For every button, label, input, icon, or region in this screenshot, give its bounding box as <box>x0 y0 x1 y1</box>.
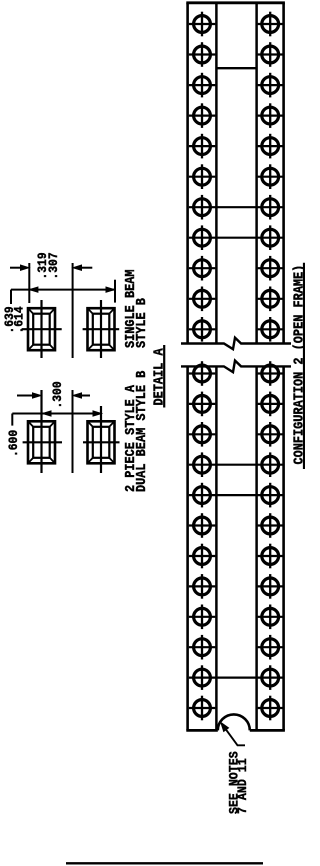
socket contact row 19 left <box>189 574 216 599</box>
socket contact row 20 right <box>258 605 283 630</box>
dimension .639/.614 line <box>11 289 115 291</box>
socket contact row 20 left <box>189 605 216 630</box>
dim .300 right arrowhead <box>73 393 82 398</box>
title DETAIL A <box>151 348 167 405</box>
dim .319 right arrowhead <box>73 265 82 270</box>
extension line mid gap G2 <box>72 390 74 473</box>
socket contact row 9 left <box>189 256 216 281</box>
contact row 15 full-width cross line <box>189 464 283 466</box>
label SINGLE BEAM <box>122 269 138 348</box>
DETAIL A underline <box>163 345 165 408</box>
dimension .300 line right part <box>80 395 90 397</box>
dimension .319/.307 line left part <box>10 267 22 269</box>
socket contact row 21 right <box>258 635 283 660</box>
socket contact row 11 right <box>258 317 283 342</box>
socket contact row 12 right <box>258 361 283 386</box>
label 2 PIECE STYLE A <box>122 385 138 492</box>
inner rail line right (upper) <box>255 3 258 344</box>
cross rib near top of socket <box>216 67 256 69</box>
title CONFIGURATION 2 (OPEN FRAME) <box>291 265 307 465</box>
socket contact row 10 left <box>189 287 216 312</box>
socket contact row 11 left <box>189 317 216 342</box>
polarity notch arc <box>218 714 250 730</box>
dim .639 left arrowhead <box>29 287 38 292</box>
socket contact row 8 left <box>194 225 211 250</box>
socket contact row 3 left <box>189 73 216 98</box>
socket contact row 3 right <box>258 73 283 98</box>
svg-text:DUAL BEAM STYLE B: DUAL BEAM STYLE B <box>133 370 149 492</box>
svg-text:.300: .300 <box>50 381 65 408</box>
socket bottom edge left of polarity notch <box>186 729 218 732</box>
socket outer right edge (upper) <box>282 3 285 344</box>
socket contact row 7 left <box>194 195 211 220</box>
dim .300 left arrowhead <box>33 393 42 398</box>
label STYLE B <box>133 298 149 348</box>
break line lower <box>181 361 291 373</box>
socket outer left edge (lower) <box>186 366 189 730</box>
socket contact row 23 left <box>189 696 216 721</box>
socket contact row 6 right <box>258 164 283 189</box>
socket contact row 18 left <box>189 544 216 569</box>
svg-text:STYLE B: STYLE B <box>133 298 149 348</box>
dim .600 right arrowhead <box>93 411 102 416</box>
socket contact row 14 left <box>189 422 216 447</box>
svg-text:CONFIGURATION 2 (OPEN FRAME): CONFIGURATION 2 (OPEN FRAME) <box>291 265 305 465</box>
socket contact row 16 left <box>194 483 211 508</box>
socket contact row 22 right <box>262 665 279 690</box>
detail contact G1 right (single beam) <box>83 300 120 358</box>
socket contact row 17 right <box>258 513 283 538</box>
socket contact row 8 right <box>262 225 279 250</box>
socket outer left edge (upper) <box>186 3 189 344</box>
leader arrowhead <box>221 722 229 731</box>
detail contact G2 left (dual beam) <box>23 390 62 473</box>
note text SEE NOTES <box>227 751 242 814</box>
socket contact row 18 right <box>258 544 283 569</box>
contact row 16 full-width cross line <box>189 494 283 496</box>
socket contact row 1 right <box>258 12 283 37</box>
dim text .307 <box>46 252 61 279</box>
dim text .639 <box>3 306 18 333</box>
socket contact row 9 right <box>258 256 283 281</box>
socket contact row 23 right <box>258 696 283 721</box>
socket contact row 13 right <box>258 392 283 417</box>
extension line left edge G1 <box>28 263 30 303</box>
dim .600 leader stub <box>11 414 13 426</box>
label DUAL BEAM STYLE B <box>133 370 149 492</box>
dim text .319 <box>35 252 50 279</box>
dimension .300 line left part <box>17 395 34 397</box>
socket contact row 2 right <box>258 42 283 67</box>
detail contact G2 right (dual beam) <box>83 406 120 473</box>
dimension .600 line <box>12 413 102 415</box>
socket contact row 4 left <box>189 103 216 128</box>
note text 7 AND 11 <box>235 758 250 814</box>
socket contact row 21 left <box>189 635 216 660</box>
socket bottom edge right of polarity notch <box>250 729 285 732</box>
socket contact row 17 left <box>189 513 216 538</box>
socket outer right edge (lower) <box>282 366 285 730</box>
leader line to polarity notch <box>224 727 245 746</box>
bottom rule line <box>66 862 263 864</box>
contact row 7 full-width cross line <box>189 206 283 208</box>
socket contact row 10 right <box>258 287 283 312</box>
socket contact row 5 left <box>189 134 216 159</box>
contact row 22 full-width cross line <box>189 676 283 678</box>
socket contact row 15 left <box>194 452 211 477</box>
contact row 8 full-width cross line <box>189 237 283 239</box>
title underline <box>303 263 305 469</box>
inner rail line right (lower) <box>255 366 258 730</box>
dim text .600 <box>6 430 21 457</box>
socket contact row 4 right <box>258 103 283 128</box>
socket contact row 14 right <box>258 422 283 447</box>
extension line right edge G1 <box>114 280 116 303</box>
socket contact row 13 left <box>189 392 216 417</box>
dim text .300 <box>50 381 65 408</box>
svg-text:7 AND 11: 7 AND 11 <box>235 758 250 814</box>
socket contact row 22 left <box>194 665 211 690</box>
inner rail line left (lower) <box>215 366 218 730</box>
socket contact row 12 left <box>189 361 216 386</box>
socket contact row 19 right <box>258 574 283 599</box>
dimension .319/.307 line right part <box>80 267 92 269</box>
dim .600 left arrowhead <box>43 411 52 416</box>
socket contact row 5 right <box>258 134 283 159</box>
dim text .614 <box>12 306 27 333</box>
svg-text:.614: .614 <box>12 306 27 333</box>
svg-text:.307: .307 <box>46 252 61 279</box>
inner rail line left (upper) <box>215 3 218 344</box>
break line upper <box>181 338 291 350</box>
extension line mid gap G1 <box>72 263 74 358</box>
socket top edge <box>186 1 285 4</box>
dim .639 right arrowhead <box>106 287 115 292</box>
dim .319 left arrowhead <box>21 265 30 270</box>
socket contact row 2 left <box>189 42 216 67</box>
socket contact row 7 right <box>262 195 279 220</box>
dim .639 leader stub <box>10 290 12 304</box>
socket contact row 6 left <box>189 164 216 189</box>
svg-text:.600: .600 <box>6 430 21 457</box>
socket contact row 15 right <box>262 452 279 477</box>
detail contact G1 left (single beam) <box>22 300 62 358</box>
socket contact row 1 left <box>189 12 216 37</box>
socket contact row 16 right <box>262 483 279 508</box>
